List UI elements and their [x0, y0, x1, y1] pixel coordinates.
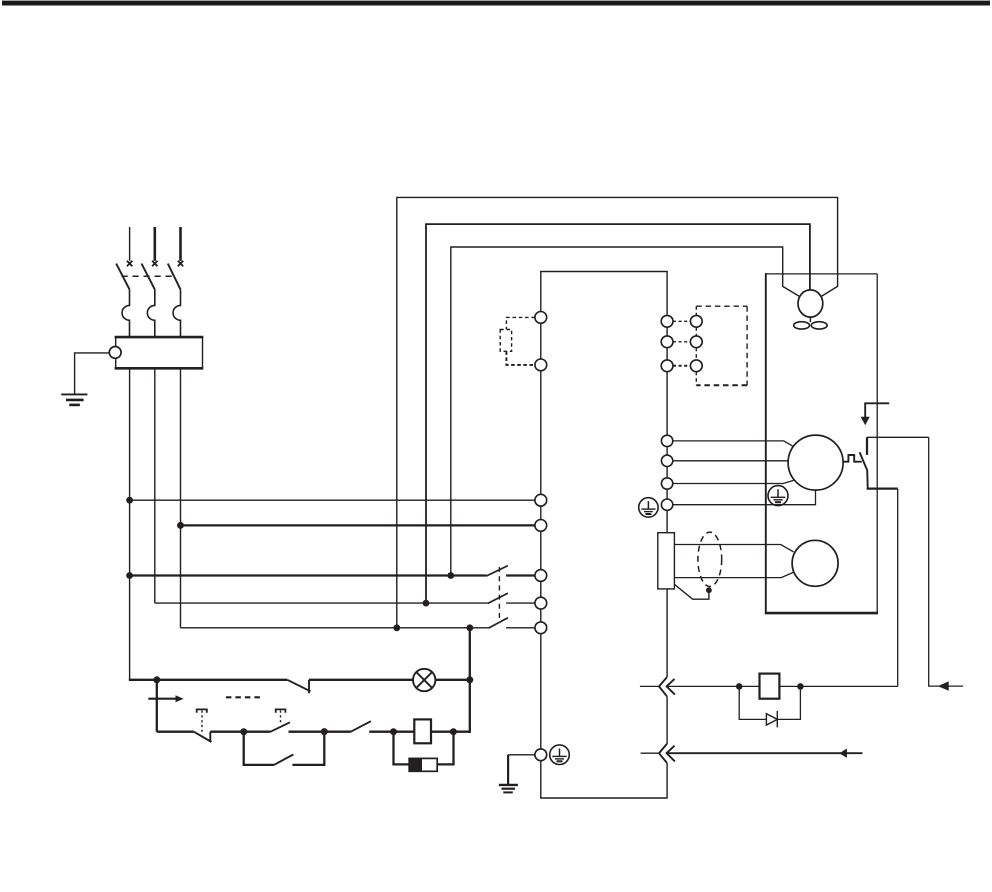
dashed component rect — [500, 330, 511, 352]
node latch branch — [240, 728, 247, 735]
wire bus between chevrons — [666, 696, 668, 744]
motor M2 — [792, 540, 838, 586]
wire far right drop with stub — [929, 437, 963, 686]
stop button blade — [194, 732, 212, 742]
latch contact blade — [274, 755, 293, 765]
wire to stop button — [157, 731, 194, 733]
PE symbol bottom — [550, 745, 570, 765]
node H3 left junction — [126, 572, 133, 579]
terminal circle T2 — [535, 359, 547, 371]
terminal circle R2L — [661, 336, 673, 348]
dashed option box left segments — [695, 306, 697, 385]
node H2 junction — [177, 522, 184, 529]
wire lamp to bus — [435, 679, 471, 681]
wire latch branch right — [292, 731, 324, 765]
lamp H1 — [413, 669, 435, 691]
wire H2 to terminal — [181, 524, 535, 526]
arrow down to pressure switch — [865, 403, 889, 417]
dashed option box — [696, 306, 747, 385]
wire to start button — [245, 731, 271, 733]
node H3 mid junction — [447, 572, 454, 579]
terminal circle R3L — [661, 360, 673, 372]
dashed link pair 2 — [673, 341, 690, 343]
terminal x mark L3 — [178, 261, 183, 266]
wire phase input L3 — [179, 227, 182, 261]
wire phase input L2 — [154, 227, 157, 261]
wire start to switch3 — [289, 731, 351, 733]
dashed mechanical link — [226, 696, 262, 698]
ground symbol left — [61, 394, 87, 405]
top header bar — [2, 1, 990, 6]
wire M1 earth — [673, 490, 816, 505]
breaker Q1 mechanical link dashed — [122, 275, 175, 277]
node relay left — [736, 683, 743, 690]
wire right drop to relay line — [897, 489, 899, 687]
relay coil K2 — [760, 674, 780, 699]
wire left column bottom loop — [541, 755, 667, 798]
node H5 left junction — [393, 624, 400, 631]
terminal circle T1 — [535, 312, 547, 324]
fan blade right — [811, 322, 827, 329]
connector chevron pair 2 — [659, 744, 675, 763]
breaker Q1 pole 2 overload element — [147, 289, 154, 337]
wire relay line right — [779, 685, 897, 687]
wire lamp line — [129, 679, 287, 681]
terminal circle T7 — [535, 622, 547, 634]
contactor K1 pole 2 blade — [488, 593, 508, 603]
arrow control feed line — [148, 698, 176, 700]
dashed link pair 3 — [673, 365, 690, 367]
wire coil to bus — [432, 731, 471, 733]
wire W1 outer nest — [397, 197, 838, 627]
connector chevron pair 1 — [659, 677, 675, 696]
contactor K1 pole 1 blade — [487, 566, 508, 576]
ground symbol bottom — [499, 785, 518, 793]
node coil left — [390, 728, 397, 735]
wire stub left of chevron 1 — [640, 685, 659, 687]
wire M2 lower — [674, 572, 793, 577]
arrow down head — [861, 417, 870, 426]
wire M1 phase U — [673, 441, 793, 447]
terminal circle R1R — [690, 315, 702, 327]
breaker Q1 pole 3 blade — [168, 264, 181, 290]
wire stop to start — [210, 731, 245, 733]
wire H5 to terminal — [506, 627, 535, 629]
terminal circle T8 — [535, 749, 547, 761]
diode D1 — [766, 711, 777, 728]
contactor K1 link dashed — [498, 567, 500, 623]
wire long arrow line — [668, 752, 863, 754]
terminal circle R1L — [661, 315, 673, 327]
fuse F1 — [409, 758, 437, 771]
wire M2 upper — [674, 545, 793, 552]
PE symbol near motor M1 — [768, 486, 788, 506]
start button actuator — [276, 709, 286, 724]
terminal circle M1b — [661, 455, 672, 466]
node coil right — [450, 728, 457, 735]
breaker Q1 pole 1 overload element — [122, 289, 129, 337]
terminal x mark L1 — [127, 261, 132, 266]
wire branch down — [156, 680, 158, 732]
dashed jumper upper run — [506, 317, 535, 329]
wire bus above connector X1 — [666, 589, 668, 677]
terminal circle T6 — [535, 597, 547, 609]
breaker Q1 pole 3 overload element — [173, 289, 180, 337]
wire PE terminal to ground — [508, 754, 535, 756]
fan motor M3 — [798, 290, 823, 317]
breaker Q1 pole 1 blade — [116, 264, 129, 290]
wire control bus vertical — [469, 628, 471, 733]
wire H4 to terminal — [506, 602, 535, 604]
fan motor stem — [809, 317, 811, 322]
wire to coil K1 — [369, 731, 414, 733]
shielded cable dashed ellipse — [698, 532, 722, 586]
wire phase P1 vertical — [129, 368, 131, 680]
wire M1 phase W — [673, 480, 794, 483]
arrow head on long line — [839, 749, 847, 758]
wire H3 to terminal — [506, 574, 535, 576]
wire fuse branch right — [437, 732, 453, 765]
wire loop top connecting terminal columns — [541, 272, 667, 322]
pressure switch upper stub — [866, 437, 868, 455]
wire phase input L1 — [129, 227, 131, 261]
wire diode branch — [739, 686, 800, 719]
wire phase P3 vertical — [180, 368, 182, 628]
wire PE vertical drop — [507, 755, 509, 785]
wire W2 middle nest — [426, 224, 810, 603]
node latch rejoin — [321, 728, 328, 735]
wire W3 inner nest — [451, 247, 801, 576]
wire H4 to contactor — [155, 602, 488, 604]
wire fuse branch left — [394, 732, 410, 765]
wire stub left of chevron 2 — [641, 752, 659, 754]
motor M1 — [788, 435, 843, 490]
node W2 junction — [423, 600, 430, 607]
node shield drain — [706, 587, 712, 593]
node H5 right junction — [466, 624, 473, 631]
node H1 junction — [126, 497, 133, 504]
neutral terminal circle — [109, 347, 121, 359]
terminal circle T5 — [535, 570, 547, 582]
wire H3 to contactor — [130, 574, 487, 576]
connector filter X2 — [658, 533, 675, 589]
node P3 junction — [177, 522, 184, 529]
terminal circle R3R — [690, 360, 702, 372]
dashed jumper lower run — [506, 351, 535, 365]
wire phase P2 vertical — [154, 368, 156, 603]
wire H5 to contactor — [181, 627, 489, 629]
terminal circle T3 — [535, 494, 547, 506]
coil K1 — [414, 719, 431, 743]
arrow into far right wire — [938, 681, 949, 690]
node lamp right — [466, 676, 473, 683]
arrow control feed head — [176, 695, 184, 702]
wire to lamp — [309, 679, 413, 681]
wire to earth — [75, 353, 110, 394]
wire H1 to terminal — [130, 499, 535, 501]
terminal circle T4 — [535, 520, 547, 532]
wire left terminal column — [540, 317, 542, 754]
fan blade left — [794, 322, 810, 329]
wire shield drain — [675, 585, 709, 600]
start button blade — [271, 722, 290, 731]
node relay right — [797, 683, 804, 690]
contactor K1 pole 3 blade — [489, 618, 508, 628]
machine box enclosure — [765, 273, 878, 613]
interlock contact blade — [351, 721, 371, 732]
terminal circle M1a — [661, 435, 672, 446]
pressure switch blade — [860, 452, 868, 487]
wire right terminal column — [666, 321, 668, 532]
node lamp line left — [153, 676, 160, 683]
terminal circle M1d — [661, 499, 672, 510]
wire switch bottom thick — [867, 487, 898, 489]
breaker Q1 pole 2 blade — [142, 264, 155, 290]
PE symbol left of column — [639, 498, 658, 517]
wire relay line left — [668, 685, 760, 687]
wire M1 phase V — [673, 460, 789, 462]
wire latch branch — [244, 732, 274, 765]
terminal x mark L2 — [152, 261, 157, 266]
pressure switch actuator — [843, 455, 862, 462]
wire switch top to right — [867, 436, 929, 438]
door switch blade — [287, 680, 310, 694]
terminal circle R2R — [690, 336, 702, 348]
terminal circle M1c — [661, 478, 672, 489]
dashed link pair 1 — [673, 320, 690, 322]
stop button actuator — [197, 709, 207, 734]
terminal block box — [115, 337, 204, 368]
